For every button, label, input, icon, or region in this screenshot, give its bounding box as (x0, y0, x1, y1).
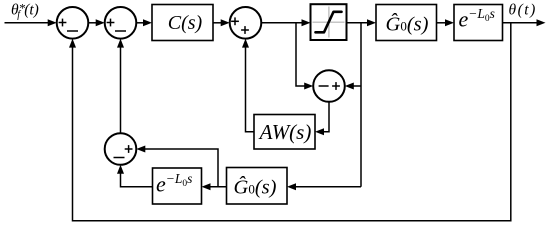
summing junction S4 (313, 70, 345, 102)
wire: saturation output tap down (to S4 right input and bottom G0hat) (287, 23, 361, 190)
wire: AW(s) output up to S3 bottom input (242, 39, 254, 132)
wire: tap between bottom blocks up to S5 right input (136, 146, 218, 187)
wire: S5 output up to S2 bottom input (117, 39, 124, 134)
block e^-L0s delay bottom (153, 168, 202, 204)
wire: saturation to G0hat top block (347, 19, 377, 26)
wire: S3 to saturation block (261, 19, 310, 26)
wire: S1 to S2 (88, 19, 104, 26)
svg-text:Ĝ0(s): Ĝ0(s) (386, 12, 429, 36)
summing junction S5 (105, 133, 137, 165)
svg-text:Ĝ0(s): Ĝ0(s) (234, 175, 277, 199)
block G0hat bottom (227, 168, 288, 205)
wire: output theta(t) (503, 19, 546, 26)
svg-text:AW(s): AW(s) (258, 120, 312, 144)
summing junction S2 (105, 7, 137, 39)
wire: G0hat bottom to e^-L0s bottom (202, 183, 227, 190)
block C(s) controller (152, 5, 213, 41)
wire: S4 output down and into AW(s) (315, 102, 329, 135)
wire: input into summing junction S1 (5, 19, 57, 26)
block G0hat top (376, 5, 437, 41)
svg-text:θ(t): θ(t) (509, 2, 537, 19)
wire: e^-L0s bottom output to S5 bottom input (117, 165, 153, 187)
wire: S2 to block C(s) (136, 19, 152, 26)
block AW(s) anti-windup (254, 115, 315, 150)
wire: C(s) to S3 (213, 19, 230, 26)
svg-text:C(s): C(s) (168, 12, 203, 34)
wire: tap before saturation down to S4 left input (296, 23, 313, 90)
svg-text:(t): (t) (24, 2, 39, 19)
summing junction S3 (230, 7, 262, 39)
input label theta_f^*(t) (11, 1, 39, 21)
wire: outer feedback loop from output to S1 (69, 23, 511, 221)
summing junction S1 (57, 7, 89, 39)
block saturation nonlinearity (311, 4, 347, 40)
block e^-L0s delay top (454, 5, 503, 41)
wire: G0hat top to delay block (437, 19, 455, 26)
